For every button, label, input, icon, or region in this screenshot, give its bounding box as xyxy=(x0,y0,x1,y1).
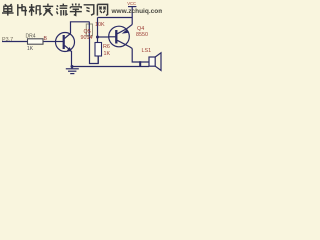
watermark char 机 xyxy=(29,4,42,16)
node base junction xyxy=(96,36,99,39)
Q4 emitter arrow (PNP) xyxy=(122,29,128,34)
svg-text:www.zchuiq.com: www.zchuiq.com xyxy=(111,8,163,15)
svg-text:DR4: DR4 xyxy=(26,33,36,39)
node emitter-ground junction xyxy=(71,65,74,68)
svg-text:1K: 1K xyxy=(27,46,34,52)
watermark char 单 xyxy=(2,4,14,16)
wire VCC rail xyxy=(98,17,133,19)
svg-text:1K: 1K xyxy=(104,51,111,57)
VCC power symbol xyxy=(128,7,136,18)
wire rail to base node xyxy=(97,18,99,43)
svg-text:LS1: LS1 xyxy=(142,48,152,54)
watermark char 网 xyxy=(97,4,107,15)
resistor R6 1K xyxy=(95,43,102,64)
svg-text:P3.7: P3.7 xyxy=(2,37,13,43)
watermark char 习 xyxy=(84,5,94,15)
watermark char 学 xyxy=(70,3,82,15)
transistor Q4 xyxy=(109,18,149,63)
watermark char 片 xyxy=(18,4,27,16)
svg-text:10K: 10K xyxy=(95,22,105,28)
resistor R5 10K xyxy=(86,22,92,36)
wire ground rail xyxy=(72,66,149,68)
background xyxy=(0,0,162,84)
transistor Q5 xyxy=(56,33,75,67)
watermark char 交 xyxy=(43,4,53,16)
wire base of Q4 xyxy=(98,36,110,38)
wire R4 to Q5 base xyxy=(43,41,56,43)
svg-text:VCC: VCC xyxy=(127,1,136,6)
svg-text:8550: 8550 xyxy=(136,32,148,38)
ground xyxy=(66,67,79,74)
speaker LS1 xyxy=(149,53,161,71)
speaker pin junction bar xyxy=(139,61,141,67)
watermark char 流 xyxy=(56,4,67,16)
wire resistor bottoms join xyxy=(90,36,99,64)
svg-text:R6: R6 xyxy=(103,44,110,50)
wire P3.7 to R4 xyxy=(2,41,28,43)
svg-text:9014: 9014 xyxy=(81,35,93,41)
Q5 emitter arrow xyxy=(67,47,72,52)
resistor DR4 1K xyxy=(28,39,44,44)
wire Q5 collector to resistor xyxy=(71,22,90,34)
